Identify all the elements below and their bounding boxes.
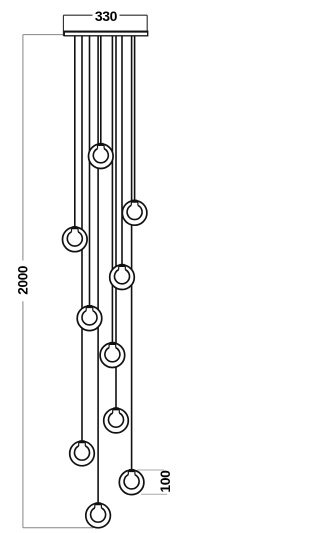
globe 3 xyxy=(63,226,88,252)
globe 2 xyxy=(122,200,147,226)
wire cord to globe 5 xyxy=(89,36,91,307)
wire cord to globe 8 xyxy=(81,36,83,442)
dimension 2000 bottom extension line to lowest globe xyxy=(23,527,94,529)
dimension 330 horizontal segment left xyxy=(63,14,92,16)
dimension 100 bottom extension line xyxy=(141,493,167,495)
dimension 2000 vertical segment lower xyxy=(22,301,24,528)
svg-text:100: 100 xyxy=(157,470,173,493)
svg-text:2000: 2000 xyxy=(15,266,30,295)
globe 6 xyxy=(100,342,125,368)
wire cord to globe 7 xyxy=(115,36,117,409)
globe 7 xyxy=(104,407,129,433)
globe 8 xyxy=(70,440,95,466)
wire cord to globe 10 xyxy=(97,36,99,504)
wire cord to globe 3 xyxy=(74,36,76,228)
dimension 330 lines xyxy=(63,15,147,36)
ceiling canopy plate xyxy=(64,31,148,36)
dimension 2000 top extension line to canopy xyxy=(23,34,64,36)
globe 9 xyxy=(119,469,144,495)
wire cord to globe 6 xyxy=(111,36,113,344)
wire cord to globe 1 xyxy=(100,36,102,145)
dimension 330 left extension line xyxy=(62,15,64,36)
globe 4 xyxy=(110,264,135,290)
dimension 100 top extension line xyxy=(137,469,164,471)
globe 10 xyxy=(86,502,111,528)
wire cord to globe 9 xyxy=(131,36,133,471)
dimension 100 extension lines xyxy=(137,470,167,494)
globe 5 xyxy=(77,305,102,331)
dimension 2000 vertical segment upper xyxy=(22,35,24,261)
wire cord to globe 2 xyxy=(134,36,136,202)
dimension 2000 lines xyxy=(23,35,94,528)
dimension 330 horizontal segment right xyxy=(120,14,148,16)
dimension 330 right extension line xyxy=(146,15,148,36)
globe 1 xyxy=(89,143,114,169)
svg-text:330: 330 xyxy=(95,8,118,24)
wire cord to globe 4 xyxy=(121,36,123,266)
